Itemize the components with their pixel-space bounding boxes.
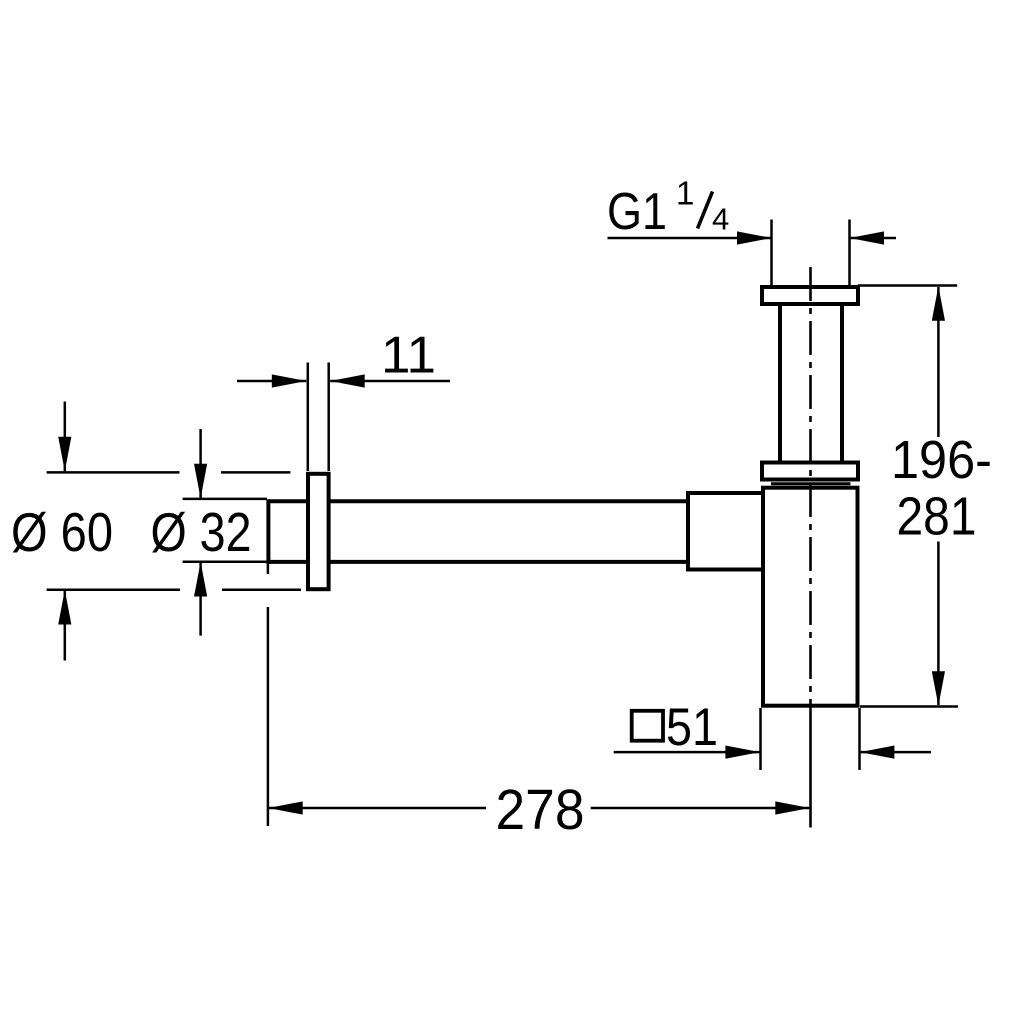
wire dim51 extension line left [759, 708, 762, 770]
wire G1 dimension line left [608, 237, 772, 240]
node G1 arrow left [850, 231, 885, 244]
wire G1 extension line left [770, 220, 773, 286]
wire dim51 line right [860, 751, 931, 754]
wire dim11 line left [237, 380, 306, 383]
node connector box [688, 493, 763, 570]
wire dia32 top extension line [183, 498, 267, 501]
wire dim278 extension line left stub [267, 564, 270, 575]
wire horizontal inlet pipe bottom line [268, 560, 688, 564]
node dia60 arrow down [58, 437, 71, 472]
wire dim11 extension line left [307, 363, 310, 472]
wire dim51 extension line right [858, 708, 861, 770]
wire dim196 line lower [937, 542, 940, 706]
svg-text:281: 281 [897, 488, 977, 547]
node dim51 arrow left [860, 746, 895, 759]
wire dia60 bottom extension line a [47, 588, 180, 591]
node washer line [771, 482, 851, 485]
wire dim11 line right [330, 380, 450, 383]
wire dim196 bottom extension line [860, 705, 958, 708]
wire dia60 top extension line b [221, 471, 290, 474]
node dim278 arrow right [775, 801, 810, 814]
label G1 fraction slash [698, 192, 713, 229]
node square symbol for 51 [632, 711, 663, 741]
svg-text:Ø 32: Ø 32 [151, 501, 252, 563]
wire G1 extension line right [848, 220, 851, 286]
node trap body [763, 488, 858, 706]
wire G1 dimension line right [850, 237, 897, 240]
wire dia60 bottom extension line b [222, 588, 301, 591]
wire dia32 bottom extension line [183, 560, 267, 563]
node dim11 arrow right [272, 374, 307, 387]
svg-text:11: 11 [381, 327, 436, 385]
svg-text:Ø 60: Ø 60 [11, 501, 113, 563]
node wall flange [308, 474, 329, 589]
node dia32 arrow up [194, 562, 207, 597]
wire dim11 extension line right [327, 363, 330, 472]
wire dim51 line left [614, 751, 760, 754]
wire dim196 line upper [937, 287, 940, 437]
node dim196 arrow up [932, 286, 945, 321]
wire dia60 top extension line a [47, 471, 180, 474]
wire dim196 top extension line [858, 284, 957, 287]
node dim51 arrow right [725, 746, 760, 759]
node G1 arrow right [737, 231, 772, 244]
node bottom nut [762, 463, 858, 480]
wire dim278 line right [591, 807, 810, 810]
wire dia32 top arrow line [199, 429, 202, 498]
node dia60 arrow up [58, 590, 71, 625]
node dia32 arrow down [194, 464, 207, 499]
wire dim278 line left [268, 807, 486, 810]
svg-text:4: 4 [712, 202, 729, 237]
wire dia60 bottom arrow line [64, 590, 67, 661]
wire horizontal inlet pipe top line [268, 499, 688, 503]
node dim196 arrow down [932, 671, 945, 706]
node dim278 arrow left [268, 801, 303, 814]
svg-text:1: 1 [676, 175, 694, 212]
svg-text:G1: G1 [607, 183, 667, 241]
wire inlet pipe left end [266, 499, 270, 564]
svg-text:51: 51 [666, 698, 718, 757]
svg-text:196-: 196- [891, 431, 992, 490]
wire riser pipe left line [778, 304, 782, 462]
wire dim278 extension line left [267, 607, 270, 826]
node dim11 arrow left [330, 374, 365, 387]
node top nut [762, 287, 858, 304]
svg-text:278: 278 [496, 778, 585, 842]
wire riser pipe right line [840, 304, 844, 462]
wire dia32 bottom arrow line [199, 562, 202, 636]
node centerline [809, 267, 812, 828]
wire dia60 top arrow line [64, 402, 67, 472]
